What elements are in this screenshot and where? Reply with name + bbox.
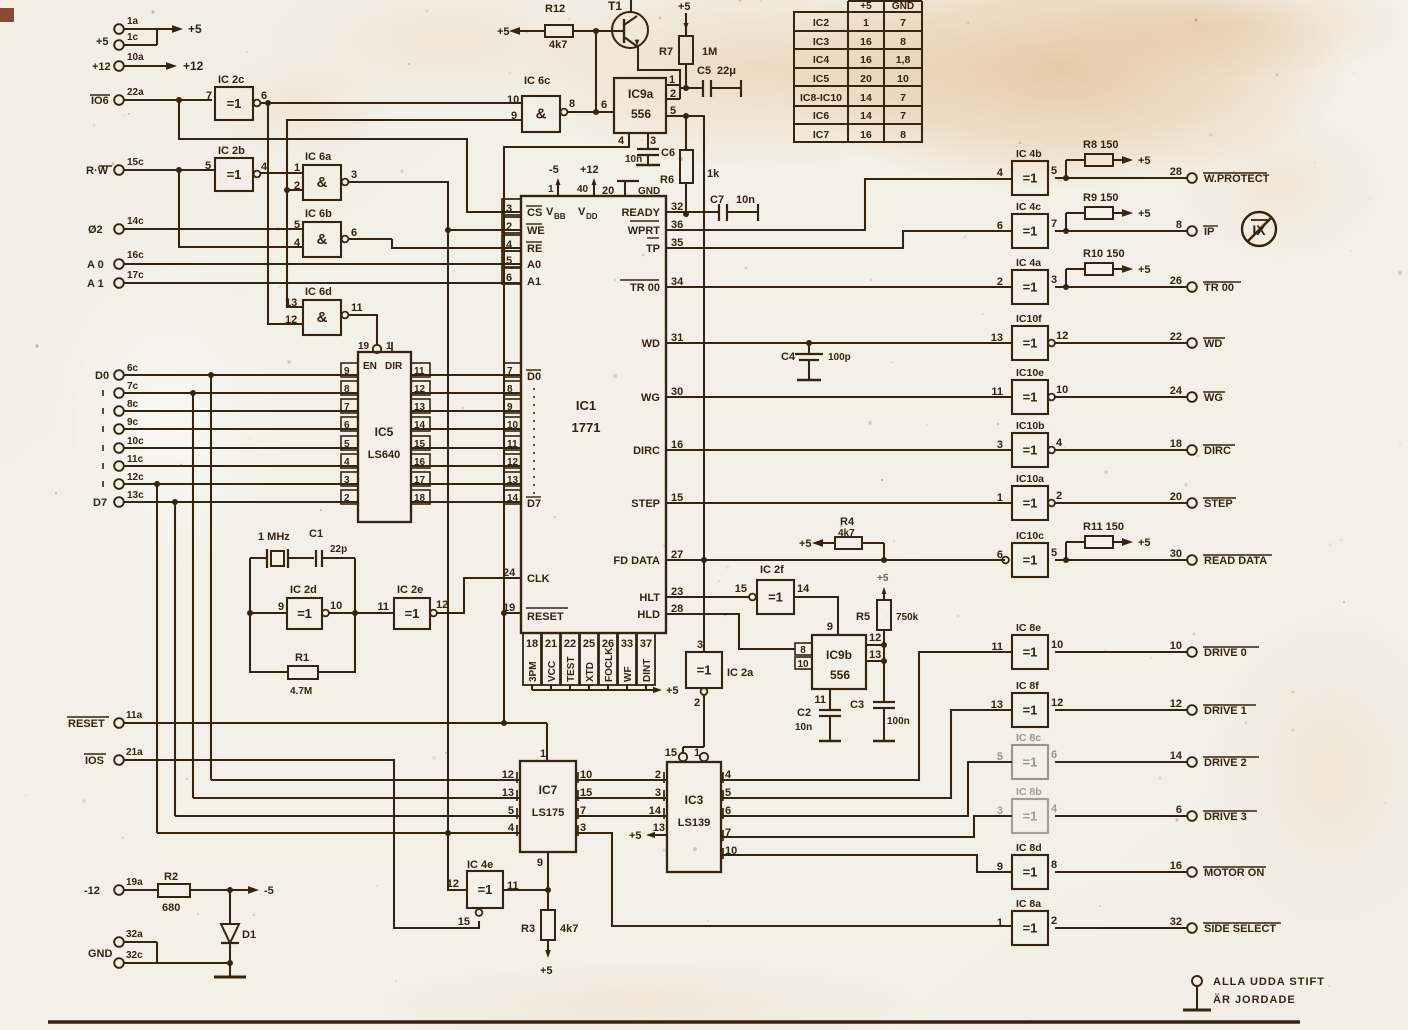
svg-text:=1: =1 xyxy=(1023,865,1038,880)
inverter IC10f xyxy=(991,313,1069,360)
svg-text:WG: WG xyxy=(641,392,660,404)
+12 supply arrow xyxy=(166,59,204,73)
svg-text:6: 6 xyxy=(261,90,267,102)
wire TR00 to IC4a xyxy=(666,286,1012,288)
svg-text:IC 2d: IC 2d xyxy=(290,584,317,596)
svg-text:ALLA UDDA STIFT: ALLA UDDA STIFT xyxy=(1213,976,1325,988)
svg-text:28: 28 xyxy=(1170,166,1182,178)
terminal A0 16c xyxy=(87,250,521,271)
svg-text:24: 24 xyxy=(1170,385,1183,397)
wire bus to IC7 pin12 xyxy=(211,779,520,781)
svg-text:V: V xyxy=(546,206,554,218)
wire RESET net xyxy=(123,610,547,761)
svg-text:14: 14 xyxy=(797,583,810,595)
diode D1 xyxy=(221,890,256,966)
svg-text:RE: RE xyxy=(527,243,542,255)
svg-text:IC10f: IC10f xyxy=(1016,313,1042,325)
svg-text:7: 7 xyxy=(206,90,212,102)
svg-text:16: 16 xyxy=(1170,860,1182,872)
svg-text:20: 20 xyxy=(860,73,872,85)
svg-text:+5: +5 xyxy=(666,685,679,697)
xor gate IC2b xyxy=(205,145,268,191)
svg-text:R1: R1 xyxy=(295,652,309,664)
capacitor C4 100p xyxy=(781,343,851,380)
svg-text:32a: 32a xyxy=(126,929,143,940)
wire IC9a pin1 pin2 to C5 node xyxy=(666,85,680,99)
svg-text:12: 12 xyxy=(447,878,459,890)
svg-text:10n: 10n xyxy=(736,194,755,206)
svg-text:IC 4e: IC 4e xyxy=(467,859,493,871)
terminal 26 TR00 xyxy=(1055,275,1241,294)
svg-text:FD DATA: FD DATA xyxy=(613,555,660,567)
svg-text:25: 25 xyxy=(583,638,595,650)
svg-text:10n: 10n xyxy=(625,154,642,165)
svg-text:=1: =1 xyxy=(1023,755,1038,770)
svg-text:-12: -12 xyxy=(84,885,100,897)
wire IC2a out to IC3 enables xyxy=(665,695,708,761)
svg-text:+5: +5 xyxy=(1138,155,1151,167)
wire D1 bus branch xyxy=(190,390,196,798)
wire WD line xyxy=(666,340,1012,346)
svg-text:DIR: DIR xyxy=(385,361,403,372)
svg-text:3: 3 xyxy=(650,135,656,147)
svg-text:3: 3 xyxy=(997,439,1003,451)
terminal D1 7c xyxy=(103,381,358,398)
svg-text:TR 00: TR 00 xyxy=(1204,282,1234,294)
svg-text:4k7: 4k7 xyxy=(549,39,567,51)
inverter IC8e xyxy=(991,622,1063,669)
nand gate IC6d xyxy=(285,286,363,335)
svg-text:4: 4 xyxy=(997,167,1004,179)
terminal 8 IP xyxy=(1055,219,1218,238)
svg-text:1M: 1M xyxy=(702,46,717,58)
terminal D4 10c xyxy=(103,436,358,453)
terminal 22 WD xyxy=(1055,331,1225,350)
wire IC5 pin to IC1 D6 xyxy=(411,483,521,485)
svg-text:R4: R4 xyxy=(840,516,855,528)
svg-text:1771: 1771 xyxy=(572,420,601,435)
svg-text:IC 2a: IC 2a xyxy=(727,667,754,679)
resistor R11 150 pullup xyxy=(1063,521,1151,563)
svg-text:11: 11 xyxy=(991,386,1003,398)
resistor R5 750k xyxy=(856,600,919,645)
nand gate IC6a xyxy=(294,151,357,200)
svg-text:=1: =1 xyxy=(1023,645,1038,660)
svg-text:16c: 16c xyxy=(127,250,144,261)
paper background xyxy=(0,0,1,1)
svg-text:3PM: 3PM xyxy=(528,661,539,682)
svg-text:4: 4 xyxy=(294,237,301,249)
terminal IO6 22a xyxy=(90,87,212,107)
svg-text:1 MHz: 1 MHz xyxy=(258,531,290,543)
svg-text:=1: =1 xyxy=(227,167,242,182)
terminal 24 WG xyxy=(1055,385,1225,404)
svg-text:IO6: IO6 xyxy=(91,95,109,107)
svg-text:IC 8e: IC 8e xyxy=(1016,622,1041,634)
svg-text:READ DATA: READ DATA xyxy=(1204,555,1267,567)
svg-text:10: 10 xyxy=(330,600,342,612)
svg-text:VCC: VCC xyxy=(547,661,558,682)
ground symbol below D1 xyxy=(214,963,246,977)
svg-text:9: 9 xyxy=(537,857,543,869)
terminal 32 SIDE SELECT xyxy=(1055,916,1281,935)
svg-text:R8 150: R8 150 xyxy=(1083,139,1118,151)
svg-text:=1: =1 xyxy=(405,606,420,621)
svg-text:IC7: IC7 xyxy=(539,783,558,797)
svg-text:R9 150: R9 150 xyxy=(1083,192,1118,204)
terminal D2 8c xyxy=(103,399,358,416)
svg-text:14: 14 xyxy=(1170,750,1183,762)
wire IC2c output to IC6c pin 10 xyxy=(260,100,522,106)
svg-text:14c: 14c xyxy=(127,216,144,227)
svg-text:IC 6a: IC 6a xyxy=(305,151,332,163)
svg-text:CS: CS xyxy=(527,207,542,219)
svg-text:+12: +12 xyxy=(580,164,599,176)
svg-text:4: 4 xyxy=(1056,437,1063,449)
svg-text:=1: =1 xyxy=(1023,390,1038,405)
svg-text:11: 11 xyxy=(814,694,826,706)
inverter IC8a xyxy=(997,898,1057,945)
svg-text:22: 22 xyxy=(564,638,576,650)
wire IC7 out to IC3 c xyxy=(576,815,667,817)
svg-text:6: 6 xyxy=(506,272,512,284)
inverter IC4c xyxy=(997,201,1057,248)
inverter IC8b xyxy=(997,786,1058,833)
wire IC5 pin to IC1 D4 xyxy=(411,447,521,449)
svg-text:4: 4 xyxy=(261,161,268,173)
svg-text:Ø2: Ø2 xyxy=(88,224,103,236)
terminal 12 DRIVE 1 xyxy=(1055,698,1256,717)
resistor R1 4.7M xyxy=(288,558,355,697)
nand gate IC6b xyxy=(294,208,357,257)
svg-text:30: 30 xyxy=(1170,548,1182,560)
svg-text:10a: 10a xyxy=(127,52,144,63)
terminal 6 DRIVE 3 xyxy=(1055,804,1257,823)
resistor R8 150 pullup xyxy=(1063,139,1151,181)
svg-text:4.7M: 4.7M xyxy=(290,686,312,697)
svg-text:18: 18 xyxy=(1170,438,1182,450)
svg-text:32c: 32c xyxy=(126,950,143,961)
svg-text:C4: C4 xyxy=(781,351,796,363)
inverter IC10b xyxy=(997,420,1063,467)
inverter IC10c xyxy=(997,530,1057,577)
wire STEP line xyxy=(666,502,1012,504)
svg-text:D7: D7 xyxy=(527,498,541,510)
svg-text:2: 2 xyxy=(997,276,1003,288)
svg-text:1: 1 xyxy=(548,184,554,195)
capacitor C2 10n xyxy=(795,689,841,741)
svg-text:=1: =1 xyxy=(768,590,783,605)
svg-text:22p: 22p xyxy=(330,544,347,555)
svg-text:40: 40 xyxy=(577,184,589,195)
svg-text:6: 6 xyxy=(997,220,1003,232)
svg-text:IC 8c: IC 8c xyxy=(1016,732,1041,744)
sheet reference IX xyxy=(1242,212,1276,246)
svg-text:1: 1 xyxy=(997,917,1003,929)
svg-text:WE: WE xyxy=(527,225,545,237)
svg-text:10: 10 xyxy=(1056,384,1068,396)
svg-text:17c: 17c xyxy=(127,270,144,281)
svg-text:2: 2 xyxy=(1051,915,1057,927)
svg-text:7: 7 xyxy=(900,17,906,29)
wire IC2e out to CLK xyxy=(437,578,521,613)
supply +5 for R5 xyxy=(877,573,889,600)
xor gate IC2d xyxy=(278,584,342,629)
wire IC5 pin to IC1 D5 xyxy=(411,465,521,467)
wire T1 base to pin6 node xyxy=(595,31,597,112)
svg-text:8: 8 xyxy=(1176,219,1182,231)
wire IC9a pin5 down xyxy=(666,113,704,652)
svg-text:4: 4 xyxy=(1051,803,1058,815)
svg-text:IC 6b: IC 6b xyxy=(305,208,332,220)
svg-text:DRIVE 1: DRIVE 1 xyxy=(1204,705,1247,717)
svg-text:IC 8b: IC 8b xyxy=(1016,786,1042,798)
svg-text:4: 4 xyxy=(618,135,625,147)
xor gate IC2e xyxy=(377,584,448,629)
svg-text:C1: C1 xyxy=(309,528,323,540)
svg-text:12: 12 xyxy=(869,632,881,644)
svg-text:10c: 10c xyxy=(127,436,144,447)
svg-text:RESET: RESET xyxy=(527,611,564,623)
terminal 14 DRIVE 2 xyxy=(1055,750,1259,769)
svg-text:HLD: HLD xyxy=(637,609,660,621)
svg-text:STEP: STEP xyxy=(1204,498,1233,510)
svg-text:2: 2 xyxy=(655,769,661,781)
svg-text:LS175: LS175 xyxy=(532,807,564,819)
svg-text:IC5: IC5 xyxy=(813,73,830,85)
svg-text:IC9b: IC9b xyxy=(826,648,852,662)
terminal 20 STEP xyxy=(1055,491,1236,510)
wire R/W branch to IC6b pin 4 xyxy=(176,167,303,247)
capacitor C5 22u xyxy=(680,65,741,97)
svg-text:D1: D1 xyxy=(242,929,256,941)
buffer IC5 LS640 xyxy=(341,341,430,522)
svg-text:9c: 9c xyxy=(127,417,139,428)
svg-text:19a: 19a xyxy=(126,877,143,888)
svg-text:IC3: IC3 xyxy=(813,36,830,48)
svg-text:8: 8 xyxy=(569,98,575,110)
svg-text:+5: +5 xyxy=(1138,537,1151,549)
capacitor C1 22p xyxy=(309,528,355,567)
wire IC3 pin13 to +5 xyxy=(629,830,667,842)
svg-text:+5: +5 xyxy=(877,573,889,584)
svg-text:8: 8 xyxy=(800,645,806,656)
svg-text:+5: +5 xyxy=(540,965,553,977)
terminal RESET 11a xyxy=(67,710,143,730)
svg-text:HLT: HLT xyxy=(639,592,660,604)
svg-text:=1: =1 xyxy=(1023,336,1038,351)
svg-text:14: 14 xyxy=(860,92,872,104)
svg-text:-5: -5 xyxy=(264,885,274,897)
svg-text:+5: +5 xyxy=(799,538,812,550)
wire FD DATA line xyxy=(666,557,1005,563)
svg-text:5: 5 xyxy=(508,805,514,817)
svg-text:IC 2b: IC 2b xyxy=(218,145,245,157)
svg-text:R·W: R·W xyxy=(86,165,109,177)
svg-text:SIDE SELECT: SIDE SELECT xyxy=(1204,923,1276,935)
svg-text:+5: +5 xyxy=(860,1,872,12)
svg-text:+5: +5 xyxy=(1138,264,1151,276)
svg-text:IC8-IC10: IC8-IC10 xyxy=(800,92,842,104)
wire IC6a output to WE and IC4e xyxy=(349,182,521,890)
svg-text:+12: +12 xyxy=(183,59,204,73)
svg-text:12: 12 xyxy=(502,769,514,781)
wire IC2b output to IC6a pin 1 xyxy=(260,172,303,174)
capacitor C6 10n xyxy=(625,133,675,165)
svg-text:21: 21 xyxy=(545,638,557,650)
svg-text:IC 8d: IC 8d xyxy=(1016,842,1042,854)
wire 22a branch to CS xyxy=(176,97,521,212)
svg-text:&: & xyxy=(317,174,328,191)
svg-text:R7: R7 xyxy=(659,46,673,58)
inverter IC4a xyxy=(997,257,1057,304)
svg-text:IC 2c: IC 2c xyxy=(218,74,244,86)
svg-text:FOCLK: FOCLK xyxy=(604,647,615,682)
wire IC6a pin2 from node xyxy=(284,187,303,193)
svg-text:12: 12 xyxy=(436,599,448,611)
svg-text:9: 9 xyxy=(511,110,517,122)
nand gate IC6c xyxy=(507,75,575,132)
svg-text:D7: D7 xyxy=(93,497,107,509)
svg-text:8: 8 xyxy=(900,36,906,48)
+5 supply arrow xyxy=(157,22,202,36)
terminal D5 11c xyxy=(103,454,358,471)
svg-text:+5: +5 xyxy=(188,22,202,36)
svg-text:100p: 100p xyxy=(828,352,851,363)
svg-text:IC5: IC5 xyxy=(375,425,394,439)
svg-text:10: 10 xyxy=(1051,639,1063,651)
svg-text:13c: 13c xyxy=(127,490,144,501)
inverter IC8d xyxy=(997,842,1057,889)
svg-text:&: & xyxy=(317,231,328,248)
svg-text:=1: =1 xyxy=(1023,921,1038,936)
svg-text:WG: WG xyxy=(1204,392,1223,404)
svg-text:4k7: 4k7 xyxy=(560,923,578,935)
svg-text:8: 8 xyxy=(1051,859,1057,871)
svg-text:BB: BB xyxy=(554,212,566,221)
terminal GND 32a 32c xyxy=(88,929,230,968)
svg-text:-5: -5 xyxy=(549,164,559,176)
svg-text:1: 1 xyxy=(997,492,1003,504)
svg-text:GND: GND xyxy=(88,948,113,960)
decoder IC3 LS139 xyxy=(649,762,738,872)
svg-text:1: 1 xyxy=(863,17,869,29)
svg-text:11a: 11a xyxy=(126,710,143,721)
wire IC7 out to IC3 b xyxy=(576,797,667,799)
wire D6 bus branch xyxy=(154,481,160,833)
timer IC9b 556 xyxy=(795,632,881,706)
svg-text:3: 3 xyxy=(1051,274,1057,286)
svg-text:9: 9 xyxy=(278,601,284,613)
svg-text:GND: GND xyxy=(638,186,660,197)
svg-text:26: 26 xyxy=(1170,275,1182,287)
svg-text:R6: R6 xyxy=(660,174,674,186)
svg-text:STEP: STEP xyxy=(631,498,660,510)
svg-text:A 0: A 0 xyxy=(87,259,104,271)
svg-text:+5: +5 xyxy=(1138,208,1151,220)
svg-text:IC10a: IC10a xyxy=(1016,473,1044,485)
resistor R4 4k7 xyxy=(799,516,884,560)
wire HLT line xyxy=(666,596,749,598)
wire WG line xyxy=(666,396,1012,398)
wire IC3 to MOTOR ON gate xyxy=(721,855,1012,872)
svg-text:2: 2 xyxy=(1056,490,1062,502)
wire IOS net to IC4e pin15 xyxy=(123,760,479,928)
svg-text:9: 9 xyxy=(827,621,833,633)
inverter IC4b xyxy=(997,148,1057,195)
wire IC6d output to IC5 pin 1 xyxy=(349,315,377,345)
svg-text:6: 6 xyxy=(351,227,357,239)
svg-text:XTD: XTD xyxy=(585,662,596,682)
svg-text:12c: 12c xyxy=(127,472,144,483)
wire IC3 to DRIVE3 gate xyxy=(721,816,1012,837)
svg-text:33: 33 xyxy=(621,638,633,650)
svg-text:1a: 1a xyxy=(127,16,139,27)
inverter IC8c xyxy=(997,732,1057,779)
svg-text:DIRC: DIRC xyxy=(1204,445,1231,457)
svg-text:&: & xyxy=(536,106,547,123)
terminal R/W 15c xyxy=(86,157,214,177)
svg-text:10: 10 xyxy=(507,94,519,106)
svg-text:12: 12 xyxy=(1051,697,1063,709)
svg-text:DRIVE 0: DRIVE 0 xyxy=(1204,647,1247,659)
wire bus to IC7 pin13 xyxy=(193,797,520,799)
resistor R2 680 xyxy=(158,871,233,914)
svg-text:=1: =1 xyxy=(227,96,242,111)
svg-text:32: 32 xyxy=(1170,916,1182,928)
terminal -12 19a xyxy=(84,877,158,897)
capacitor C3 100n xyxy=(850,699,910,741)
svg-text:IC9a: IC9a xyxy=(628,87,654,101)
svg-text:1c: 1c xyxy=(127,32,139,43)
resistor R9 150 pullup xyxy=(1063,192,1151,234)
wire to -5 arrow xyxy=(230,885,274,897)
svg-text:=1: =1 xyxy=(1023,224,1038,239)
svg-text:3: 3 xyxy=(506,203,512,215)
svg-text:10: 10 xyxy=(897,73,909,85)
svg-text:DD: DD xyxy=(586,212,598,221)
svg-text:=1: =1 xyxy=(1023,809,1038,824)
terminal 28 W.PROTECT xyxy=(1055,166,1270,185)
terminal 16 MOTOR ON xyxy=(1055,860,1266,879)
svg-text:13: 13 xyxy=(502,787,514,799)
svg-text:+5: +5 xyxy=(678,1,691,13)
wire IC2f out to IC9b pin 9 xyxy=(794,597,838,635)
svg-text:12: 12 xyxy=(1056,330,1068,342)
svg-text:5: 5 xyxy=(1051,547,1057,559)
wire WPRT to IC4b xyxy=(666,179,1012,230)
svg-text:C5: C5 xyxy=(697,65,711,77)
pin RESET 19 of IC1 xyxy=(503,602,568,623)
svg-text:IC10c: IC10c xyxy=(1016,530,1044,542)
chip IC1 1771 xyxy=(502,164,684,633)
svg-text:CLK: CLK xyxy=(527,573,550,585)
svg-text:4: 4 xyxy=(508,822,515,834)
svg-text:13: 13 xyxy=(869,649,881,661)
wire READY pin 32 xyxy=(666,211,719,213)
terminal D7 13c xyxy=(93,490,358,509)
wire IC9a pin4 to reset net xyxy=(504,133,629,613)
svg-text:IC10e: IC10e xyxy=(1016,367,1044,379)
wire IC3 to DRIVE0 gate xyxy=(721,652,1012,780)
svg-text:11: 11 xyxy=(351,302,363,314)
svg-text:=1: =1 xyxy=(697,663,712,678)
wire IC7 out to IC3 a xyxy=(576,779,667,781)
wire bus to IC7 pin4 xyxy=(157,830,520,836)
svg-text:C6: C6 xyxy=(661,147,675,159)
xor gate IC2c xyxy=(206,74,267,120)
svg-text:R5: R5 xyxy=(856,611,870,623)
